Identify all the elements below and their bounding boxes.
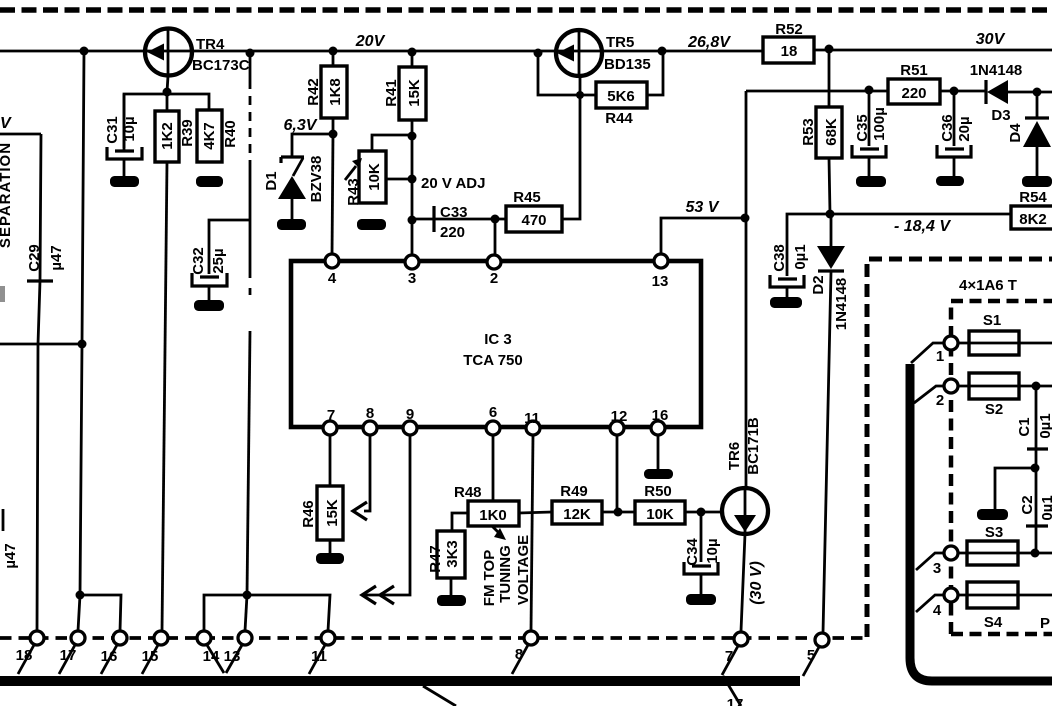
svg-text:30V: 30V xyxy=(976,31,1006,48)
svg-text:0µ1: 0µ1 xyxy=(1037,413,1052,438)
svg-text:2: 2 xyxy=(936,392,944,409)
svg-text:R49: R49 xyxy=(560,483,588,500)
svg-text:R53: R53 xyxy=(800,118,817,146)
svg-text:TR4: TR4 xyxy=(196,36,225,53)
wire 53V: IC pin13 to node xyxy=(661,218,745,254)
wire IC pin16 to ground xyxy=(657,435,660,469)
svg-text:3K3: 3K3 xyxy=(444,540,461,568)
svg-text:1N4148: 1N4148 xyxy=(970,62,1023,79)
svg-text:16: 16 xyxy=(652,407,669,424)
resistor R40 4K7 xyxy=(197,110,239,162)
svg-text:C38: C38 xyxy=(771,244,788,272)
svg-text:12: 12 xyxy=(611,408,628,425)
wire bracket node to cable pin 16 xyxy=(80,595,121,631)
wire cable slant pin17 xyxy=(59,645,75,674)
outer dashed screen box (switch unit) xyxy=(867,259,1052,637)
wire IC pin11 to cable pin 8 xyxy=(531,435,533,631)
top screening dashed border xyxy=(0,7,1052,13)
wire C34 column xyxy=(700,512,703,594)
svg-text:C34: C34 xyxy=(684,538,701,566)
svg-text:D2: D2 xyxy=(810,275,827,294)
wire R50 to TR6 base xyxy=(685,511,722,514)
node -18.4V xyxy=(826,210,835,219)
node C1/C2 xyxy=(1031,464,1040,473)
wire R43 top bend xyxy=(372,135,412,151)
node unit pin 2 xyxy=(944,379,958,393)
wire breakout pin1 to cable xyxy=(911,343,944,363)
svg-text:C36: C36 xyxy=(939,114,956,142)
wire breakout pin2 to cable xyxy=(914,386,944,403)
node cable pin 15 xyxy=(154,631,168,645)
wire IC pin9 stub with arrow xyxy=(364,435,410,595)
node TR5 base/R44 xyxy=(576,91,584,99)
svg-text:13: 13 xyxy=(652,273,669,290)
capacitor C34 10µ xyxy=(684,538,721,574)
diode D4 xyxy=(1007,118,1051,147)
wire breakout pin4 to cable xyxy=(916,595,944,612)
wire S-unit pin2 to S2 and out xyxy=(958,385,1052,388)
ground (D4) xyxy=(1022,176,1052,187)
svg-text:µ47: µ47 xyxy=(2,543,19,568)
zener diode D1 BZV38 xyxy=(263,156,325,219)
ground (C35) xyxy=(856,176,886,187)
ground (R47) xyxy=(437,595,466,606)
node TR4 base xyxy=(163,88,172,97)
node C33/R45/pin2 xyxy=(491,215,500,224)
fuse S1 xyxy=(969,312,1019,355)
resistor R51 220 xyxy=(888,62,940,104)
resistor R44 5K6 xyxy=(596,82,647,127)
node IC pin 4 xyxy=(325,254,339,268)
wire R48 left to R47 xyxy=(452,513,468,531)
svg-text:0µ1: 0µ1 xyxy=(792,244,809,269)
svg-text:4: 4 xyxy=(933,602,942,619)
svg-text:R40: R40 xyxy=(222,120,239,148)
svg-text:6,3V: 6,3V xyxy=(284,117,318,134)
wire cable slant pin11 xyxy=(309,645,325,674)
svg-text:C2: C2 xyxy=(1019,495,1036,514)
node IC pin 11 xyxy=(526,421,540,435)
node unit pin 3 xyxy=(944,546,958,560)
svg-text:R52: R52 xyxy=(775,21,803,38)
ground (C1/C2 tap) xyxy=(977,509,1008,520)
wire R49 to R50 xyxy=(602,511,635,514)
wire -18.4V net xyxy=(830,213,1011,216)
svg-text:R47: R47 xyxy=(427,545,444,573)
svg-text:100µ: 100µ xyxy=(871,107,888,141)
node 53V xyxy=(741,214,750,223)
svg-text:1K2: 1K2 xyxy=(159,122,176,150)
svg-text:0µ1: 0µ1 xyxy=(1039,495,1052,520)
wire C33 net (20V ADJ to pin2/R45) xyxy=(412,219,506,255)
wire node to D1 xyxy=(292,134,333,156)
svg-text:11: 11 xyxy=(524,410,540,427)
wire x745 column (30V aux rail down through TR6) xyxy=(741,91,746,631)
svg-text:D3: D3 xyxy=(991,107,1010,124)
wire C38 tap xyxy=(787,214,831,276)
wire cable slant pin13 xyxy=(226,645,242,673)
svg-text:1: 1 xyxy=(936,348,944,365)
svg-text:BC173C: BC173C xyxy=(192,57,250,74)
svg-text:3: 3 xyxy=(408,270,416,287)
wire R46 bottom to ground xyxy=(329,540,332,553)
wire bracket node to cable pin 11 xyxy=(247,595,330,631)
right cable run (thick, curved) xyxy=(910,364,1052,681)
wire D4 column xyxy=(1036,93,1039,176)
svg-text:14: 14 xyxy=(203,648,220,665)
svg-text:18: 18 xyxy=(16,647,33,664)
svg-text:4K7: 4K7 xyxy=(201,122,218,150)
node cable pin 11 xyxy=(321,631,335,645)
svg-text:FM TOP: FM TOP xyxy=(481,550,498,606)
svg-text:5K6: 5K6 xyxy=(607,88,635,105)
main cable bus (thick) xyxy=(0,676,800,686)
wire from left edge y344 xyxy=(0,343,82,346)
svg-text:S4: S4 xyxy=(984,614,1003,631)
node IC pin 7 xyxy=(323,421,337,435)
ground (C36) xyxy=(936,176,964,186)
wire D2 column to cable pin 5 xyxy=(823,214,831,633)
svg-text:BC171B: BC171B xyxy=(745,417,762,475)
svg-text:7: 7 xyxy=(327,407,335,424)
wire y90 rail to R51/D3 xyxy=(746,91,1052,92)
svg-text:10µ: 10µ xyxy=(121,116,138,141)
svg-text:10K: 10K xyxy=(646,506,674,523)
svg-text:- 18,4 V: - 18,4 V xyxy=(894,218,951,235)
wire TR5/R44 bypass loop xyxy=(538,53,663,95)
wire IC pin7 to R46 xyxy=(329,435,332,486)
svg-text:5: 5 xyxy=(807,647,815,664)
svg-text:1K0: 1K0 xyxy=(479,507,507,524)
node cable pin 14 xyxy=(197,631,211,645)
node IC pin 8 xyxy=(363,421,377,435)
svg-text:1K8: 1K8 xyxy=(327,78,344,106)
capacitor C31 10µ xyxy=(104,94,142,176)
node R50/C34/TR6 xyxy=(697,508,706,517)
wire exit below bus (pin7 feed-through) xyxy=(723,676,741,706)
svg-text:15K: 15K xyxy=(406,79,423,107)
svg-text:1N4148: 1N4148 xyxy=(833,278,850,331)
svg-text:12K: 12K xyxy=(563,506,591,523)
node bracket 17/16 xyxy=(76,591,85,600)
svg-text:BD135: BD135 xyxy=(604,56,651,73)
node C2/S3 output xyxy=(1031,549,1040,558)
node R49/R50/pin12 xyxy=(614,508,623,517)
ground (C34) xyxy=(686,594,716,605)
svg-text:D1: D1 xyxy=(263,171,280,190)
svg-text:220: 220 xyxy=(440,224,465,241)
svg-text:R51: R51 xyxy=(900,62,928,79)
wire IC pin8 stub with arrow xyxy=(364,435,370,511)
svg-text:R41: R41 xyxy=(383,79,400,107)
svg-text:4: 4 xyxy=(328,270,337,287)
node A (left y344) xyxy=(78,340,87,349)
wire R48 to R49 xyxy=(519,512,552,513)
svg-text:R43: R43 xyxy=(345,178,362,206)
svg-text:µ47: µ47 xyxy=(48,245,65,270)
IC3 TCA750 box xyxy=(291,261,701,427)
node 20V/TR4 left xyxy=(80,47,89,56)
wire left drop to node A (y344) and pin 17 xyxy=(78,51,84,631)
node cable pin 16 xyxy=(113,631,127,645)
wire C31/R39/R40 tee xyxy=(124,92,209,148)
svg-text:20 V ADJ: 20 V ADJ xyxy=(421,175,485,192)
wire S-unit pin4 to S4 and out xyxy=(958,594,1052,597)
arrow at pin8 wire xyxy=(353,502,367,520)
wire R39 column to cable pin 15 xyxy=(162,162,167,631)
svg-text:16: 16 xyxy=(101,648,118,665)
fuse S3 xyxy=(967,524,1018,565)
node unit pin 1 xyxy=(944,336,958,350)
double arrow at pin9 wire xyxy=(362,586,394,604)
svg-text:15: 15 xyxy=(142,648,159,665)
svg-text:S1: S1 xyxy=(983,312,1001,329)
node C36 top xyxy=(950,87,959,96)
node D3/D4 xyxy=(1033,88,1042,97)
wire R47 bottom to ground xyxy=(450,578,453,595)
node IC pin 2 xyxy=(487,255,501,269)
resistor R41 15K xyxy=(383,67,426,120)
svg-text:R46: R46 xyxy=(300,500,317,528)
svg-text:TR6: TR6 xyxy=(726,442,743,470)
node cable pin 18 xyxy=(30,631,44,645)
ground (R46) xyxy=(316,553,344,564)
ground (C32) xyxy=(194,300,224,311)
ground (IC pin16) xyxy=(644,469,673,479)
wire S-unit pin3 to S3 and out xyxy=(958,552,1052,555)
bottom cable dashed line xyxy=(0,636,866,640)
svg-text:R42: R42 xyxy=(305,78,322,106)
svg-text:R54: R54 xyxy=(1019,189,1047,206)
svg-text:BZV38: BZV38 xyxy=(308,156,325,203)
wire breakout pin3 to cable xyxy=(916,553,944,570)
transistor TR4 BC173C xyxy=(145,29,250,76)
svg-text:4×1A6 T: 4×1A6 T xyxy=(959,277,1017,294)
svg-text:10µ: 10µ xyxy=(704,538,721,563)
svg-text:53 V: 53 V xyxy=(686,199,720,216)
node TR5 left xyxy=(534,49,543,58)
node IC pin 6 xyxy=(486,421,500,435)
svg-text:D4: D4 xyxy=(1007,123,1024,143)
node R41/R43 top xyxy=(408,132,417,141)
transistor TR5 BD135 xyxy=(556,30,651,76)
wire exit below bus (left) xyxy=(423,686,456,706)
svg-text:C33: C33 xyxy=(440,204,468,221)
node S2 output xyxy=(1032,382,1041,391)
svg-text:S3: S3 xyxy=(985,524,1003,541)
diode D3 1N4148 xyxy=(970,62,1023,124)
svg-text:R50: R50 xyxy=(644,483,672,500)
node R43 wiper / 20V ADJ xyxy=(408,175,417,184)
wire R42 top xyxy=(332,51,335,66)
svg-text:8: 8 xyxy=(515,646,523,663)
resistor R42 1K8 xyxy=(305,66,347,118)
wire IC pin12 to R49/R50 node xyxy=(616,435,619,512)
svg-text:VOLTAGE: VOLTAGE xyxy=(515,535,532,605)
svg-text:20µ: 20µ xyxy=(956,116,973,141)
svg-text:470: 470 xyxy=(521,212,546,229)
svg-text:2: 2 xyxy=(490,270,498,287)
resistor R52 18 xyxy=(763,21,814,63)
wire R41 bottom column to IC pin 3 xyxy=(411,120,414,255)
wire C29 column to cable pin 18 xyxy=(37,134,41,631)
node 6.3V xyxy=(329,130,338,139)
fuse S4 xyxy=(967,582,1018,631)
node 20V/R42 xyxy=(329,47,338,56)
ground (R43) xyxy=(357,219,386,230)
wire cable slant pin18 xyxy=(18,645,34,674)
grey bar fragment xyxy=(0,286,5,302)
wire x250 column (20V to C32 node, partly dashed) xyxy=(249,53,252,80)
svg-text:8: 8 xyxy=(366,405,374,422)
arrow FM tuning voltage pointer xyxy=(492,526,503,537)
node bracket 14/13/11 xyxy=(243,591,252,600)
svg-text:11: 11 xyxy=(311,648,327,665)
capacitor C32 25µ xyxy=(190,247,227,300)
wire TR4 base column xyxy=(167,76,168,92)
svg-text:8K2: 8K2 xyxy=(1019,211,1047,228)
svg-text:TR5: TR5 xyxy=(606,34,634,51)
svg-text:IC 3: IC 3 xyxy=(484,331,512,348)
svg-text:20V: 20V xyxy=(355,33,386,50)
node C35 top xyxy=(865,86,874,95)
wire cable slant pin7 xyxy=(722,646,738,675)
svg-text:68K: 68K xyxy=(823,118,840,146)
wire cable slant pin14 xyxy=(207,645,224,673)
resistor R53 68K xyxy=(800,107,842,158)
transistor TR6 BC171B xyxy=(722,417,768,534)
capacitor C38 0µ1 xyxy=(770,244,809,297)
svg-text:17: 17 xyxy=(60,647,77,664)
node IC pin 9 xyxy=(403,421,417,435)
fuse S2 xyxy=(969,373,1019,418)
svg-text:C29: C29 xyxy=(26,244,43,272)
wire C35 column xyxy=(868,90,871,176)
wire cable slant pin16 xyxy=(101,645,117,674)
node cable pin 7 xyxy=(734,632,748,646)
svg-text:R39: R39 xyxy=(179,119,196,147)
wire R45 to TR5 base xyxy=(562,77,580,219)
svg-text:18: 18 xyxy=(781,43,798,60)
capacitor C36 20µ xyxy=(937,114,973,157)
capacitor C29 µ47 xyxy=(26,244,65,281)
svg-text:13: 13 xyxy=(224,648,241,665)
resistor R54 8K2 xyxy=(1011,189,1052,229)
svg-text:SEPARATION: SEPARATION xyxy=(0,142,14,248)
node IC pin 12 xyxy=(610,421,624,435)
wire R53 column xyxy=(829,49,830,214)
wire C32 tap xyxy=(209,220,250,274)
svg-text:C35: C35 xyxy=(854,114,871,142)
svg-text:3: 3 xyxy=(933,560,941,577)
wire cable slant pin5 xyxy=(803,647,819,676)
svg-text:R48: R48 xyxy=(454,484,482,501)
svg-text:R45: R45 xyxy=(513,189,541,206)
node IC pin 3 xyxy=(405,255,419,269)
ground (C38) xyxy=(770,297,802,308)
svg-text:(30 V): (30 V) xyxy=(748,561,765,605)
wire R42 bottom to node 6.3V xyxy=(332,118,335,134)
svg-text:7: 7 xyxy=(725,648,733,665)
svg-text:S2: S2 xyxy=(985,401,1003,418)
diode D2 1N4148 xyxy=(810,246,850,330)
svg-text:C1: C1 xyxy=(1016,417,1033,436)
wire S-unit pin1 to S1 and out xyxy=(958,342,1052,345)
node cable pin 17 xyxy=(71,631,85,645)
inner dashed box (switch unit S1-S4) xyxy=(951,301,1052,634)
wire C1/C2 column xyxy=(1035,386,1038,553)
resistor R49 12K xyxy=(552,483,602,524)
capacitor C33 220 xyxy=(434,204,468,241)
svg-text:6: 6 xyxy=(489,404,497,421)
wire ground tap between C1 and C2 xyxy=(995,468,1036,509)
capacitor C2 0µ1 xyxy=(1019,495,1052,526)
node unit pin 4 xyxy=(944,588,958,602)
svg-text:15K: 15K xyxy=(324,499,341,527)
node cable pin 13 xyxy=(238,631,252,645)
node 20V/R41 xyxy=(408,48,417,57)
svg-text:C31: C31 xyxy=(104,116,121,144)
node R41/C33 xyxy=(408,216,417,225)
wire R43 wiper to node xyxy=(386,178,412,181)
wire 20V rail xyxy=(0,50,1052,51)
ground (R40) xyxy=(196,176,223,187)
node IC pin 13 xyxy=(654,254,668,268)
svg-text:R44: R44 xyxy=(605,110,633,127)
svg-text:9: 9 xyxy=(406,406,414,423)
node IC pin 16 xyxy=(651,421,665,435)
resistor R47 3K3 xyxy=(427,531,465,578)
wire left stub y134 to C29 xyxy=(0,133,41,136)
svg-text:26,8V: 26,8V xyxy=(687,34,731,51)
resistor R43 10K (trimmer) xyxy=(345,151,386,206)
resistor R45 470 xyxy=(506,189,562,232)
svg-text:17: 17 xyxy=(727,696,744,706)
wire node to IC pin 4 xyxy=(332,134,333,255)
wire C36 column xyxy=(953,91,956,176)
node 30V/R53 xyxy=(825,45,834,54)
svg-text:220: 220 xyxy=(901,85,926,102)
node TR5 right xyxy=(658,47,667,56)
node cable pin 8 xyxy=(524,631,538,645)
svg-text:10K: 10K xyxy=(366,163,383,191)
capacitor C1 0µ1 xyxy=(1016,413,1052,449)
wire cable slant pin15 xyxy=(142,645,158,674)
ground (C31) xyxy=(110,176,139,187)
resistor R39 1K2 xyxy=(155,111,196,162)
svg-text:V: V xyxy=(0,115,12,132)
svg-text:P: P xyxy=(1040,615,1050,632)
wire IC pin6 to R48 xyxy=(492,435,495,501)
wire R41 top xyxy=(411,51,414,67)
wire bracket node to cable pin 14 xyxy=(204,595,247,631)
node cable pin 5 xyxy=(815,633,829,647)
wire node to cable pin 13 xyxy=(245,595,247,631)
capacitor C35 100µ xyxy=(852,107,888,157)
wire cable slant pin8 xyxy=(512,645,528,674)
ground (D1) xyxy=(277,219,306,230)
resistor R50 10K xyxy=(635,483,685,524)
svg-text:TUNING: TUNING xyxy=(497,545,514,603)
resistor R46 15K xyxy=(300,486,343,540)
svg-text:C32: C32 xyxy=(190,247,207,275)
svg-text:25µ: 25µ xyxy=(210,248,227,273)
resistor R48 1K0 xyxy=(454,484,519,526)
node 20V/x250 xyxy=(246,49,255,58)
svg-text:TCA 750: TCA 750 xyxy=(463,352,522,369)
